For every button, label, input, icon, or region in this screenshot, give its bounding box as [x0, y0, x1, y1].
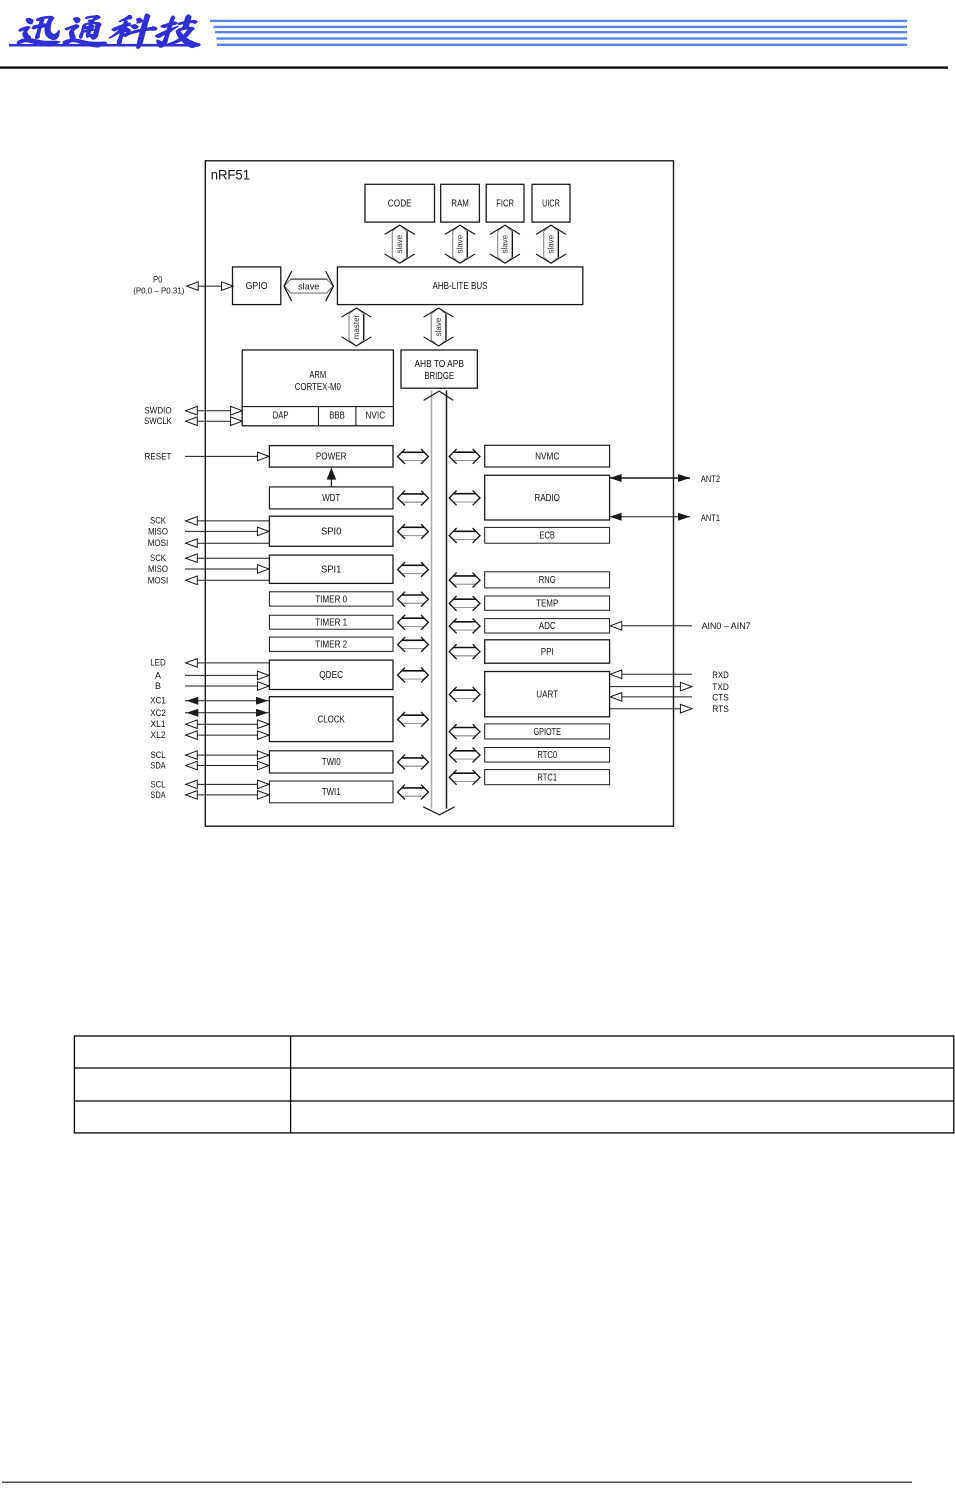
svg-text:DAP: DAP	[273, 411, 289, 422]
svg-text:QDEC: QDEC	[319, 670, 343, 681]
svg-text:RNG: RNG	[539, 575, 556, 586]
svg-text:MOSI: MOSI	[148, 575, 169, 585]
svg-text:TEMP: TEMP	[536, 598, 558, 609]
svg-text:PPI: PPI	[541, 647, 554, 658]
svg-text:TXD: TXD	[712, 682, 729, 692]
svg-text:A: A	[155, 670, 161, 680]
svg-text:ADC: ADC	[539, 621, 556, 632]
svg-text:CLOCK: CLOCK	[318, 714, 345, 725]
svg-text:SDA: SDA	[150, 790, 165, 800]
svg-text:B: B	[155, 681, 161, 691]
svg-text:SDA: SDA	[150, 761, 165, 771]
svg-text:RTC1: RTC1	[537, 772, 557, 783]
svg-text:ANT1: ANT1	[701, 513, 720, 523]
svg-text:AHB-LITE BUS: AHB-LITE BUS	[433, 280, 488, 292]
svg-text:XC2: XC2	[150, 708, 166, 718]
svg-text:RTC0: RTC0	[537, 750, 557, 761]
svg-text:RESET: RESET	[145, 451, 172, 461]
svg-text:SCL: SCL	[150, 779, 165, 789]
svg-text:SCK: SCK	[150, 515, 166, 525]
svg-text:master: master	[352, 314, 361, 339]
svg-text:GPIO: GPIO	[246, 281, 268, 292]
svg-text:RXD: RXD	[712, 670, 729, 680]
svg-text:(P0.0 – P0.31): (P0.0 – P0.31)	[133, 285, 184, 295]
svg-text:SPI1: SPI1	[321, 565, 342, 576]
svg-text:ANT2: ANT2	[701, 474, 720, 484]
svg-text:slave: slave	[298, 281, 319, 292]
svg-text:TIMER 0: TIMER 0	[315, 594, 347, 605]
svg-text:CODE: CODE	[388, 198, 412, 209]
svg-text:TWI1: TWI1	[322, 787, 341, 798]
svg-text:XL2: XL2	[150, 730, 165, 740]
svg-text:BBB: BBB	[329, 411, 345, 422]
svg-text:NVIC: NVIC	[365, 411, 385, 422]
svg-text:CORTEX-M0: CORTEX-M0	[295, 382, 341, 393]
svg-text:XC1: XC1	[150, 696, 166, 706]
svg-text:NVMC: NVMC	[535, 451, 559, 462]
svg-text:RTS: RTS	[712, 704, 729, 714]
svg-text:TWI0: TWI0	[322, 757, 341, 768]
svg-text:GPIOTE: GPIOTE	[533, 727, 561, 738]
svg-text:TIMER 2: TIMER 2	[315, 640, 347, 651]
svg-text:SWDIO: SWDIO	[144, 406, 171, 416]
svg-text:slave: slave	[501, 234, 510, 253]
svg-text:MISO: MISO	[148, 564, 168, 574]
svg-text:ECB: ECB	[540, 531, 556, 542]
svg-text:TIMER 1: TIMER 1	[315, 618, 347, 629]
svg-text:FICR: FICR	[496, 198, 514, 209]
svg-text:SCK: SCK	[150, 553, 166, 563]
svg-text:slave: slave	[547, 234, 556, 253]
svg-text:POWER: POWER	[316, 452, 347, 463]
svg-text:AIN0 – AIN7: AIN0 – AIN7	[702, 621, 751, 631]
svg-text:slave: slave	[434, 317, 443, 336]
svg-text:SCL: SCL	[150, 750, 165, 760]
svg-text:AHB TO APB: AHB TO APB	[414, 359, 464, 370]
svg-text:P0: P0	[153, 275, 162, 285]
svg-text:XL1: XL1	[150, 719, 165, 729]
svg-text:RADIO: RADIO	[535, 493, 560, 504]
svg-text:UART: UART	[536, 689, 558, 700]
svg-text:ARM: ARM	[309, 370, 326, 381]
svg-text:MISO: MISO	[148, 526, 168, 536]
svg-text:CTS: CTS	[712, 692, 729, 702]
svg-text:nRF51: nRF51	[211, 167, 250, 183]
svg-text:LED: LED	[150, 657, 166, 667]
svg-text:SWCLK: SWCLK	[144, 416, 172, 426]
svg-text:slave: slave	[395, 234, 404, 253]
svg-text:UICR: UICR	[542, 198, 560, 209]
svg-text:RAM: RAM	[451, 198, 469, 209]
svg-text:slave: slave	[456, 234, 465, 253]
svg-text:MOSI: MOSI	[148, 538, 169, 548]
svg-text:WDT: WDT	[322, 493, 340, 504]
svg-text:SPI0: SPI0	[321, 527, 342, 538]
svg-text:BRIDGE: BRIDGE	[424, 371, 454, 382]
